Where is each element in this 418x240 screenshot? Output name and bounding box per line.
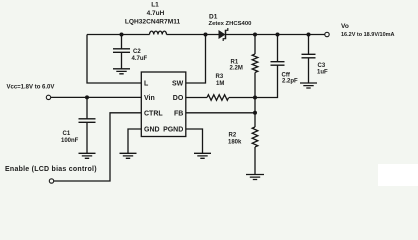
svg-text:L: L bbox=[144, 80, 149, 87]
svg-text:C2: C2 bbox=[133, 49, 141, 55]
svg-text:Vcc=1.8V to 6.0V: Vcc=1.8V to 6.0V bbox=[7, 85, 55, 91]
svg-text:180k: 180k bbox=[228, 139, 242, 145]
svg-text:R3: R3 bbox=[216, 74, 224, 80]
svg-text:DO: DO bbox=[173, 95, 184, 102]
svg-text:D1: D1 bbox=[209, 14, 218, 21]
svg-text:C3: C3 bbox=[318, 63, 326, 69]
svg-text:SW: SW bbox=[172, 80, 184, 87]
svg-text:4.7uF: 4.7uF bbox=[132, 56, 148, 62]
svg-text:FB: FB bbox=[174, 110, 183, 117]
svg-text:C1: C1 bbox=[63, 131, 71, 137]
svg-text:Enable (LCD bias control): Enable (LCD bias control) bbox=[5, 166, 97, 173]
svg-text:1uF: 1uF bbox=[317, 70, 328, 76]
svg-text:R2: R2 bbox=[229, 132, 237, 138]
svg-text:PGND: PGND bbox=[163, 126, 183, 133]
svg-text:CTRL: CTRL bbox=[144, 110, 163, 117]
svg-text:4.7uH: 4.7uH bbox=[147, 10, 165, 17]
svg-text:R1: R1 bbox=[231, 59, 239, 65]
svg-text:L1: L1 bbox=[151, 2, 159, 9]
svg-text:Vin: Vin bbox=[144, 95, 155, 102]
svg-text:2.2pF: 2.2pF bbox=[282, 78, 298, 84]
svg-text:16.2V to 18.9V/10mA: 16.2V to 18.9V/10mA bbox=[341, 32, 395, 38]
svg-text:1M: 1M bbox=[216, 81, 224, 87]
svg-text:GND: GND bbox=[144, 126, 160, 133]
svg-text:Vo: Vo bbox=[341, 23, 349, 30]
svg-text:LQH32CN4R7M11: LQH32CN4R7M11 bbox=[125, 19, 181, 26]
svg-text:Zetex ZHCS400: Zetex ZHCS400 bbox=[209, 21, 253, 27]
svg-text:2.2M: 2.2M bbox=[230, 66, 243, 72]
svg-text:100nF: 100nF bbox=[61, 138, 79, 144]
